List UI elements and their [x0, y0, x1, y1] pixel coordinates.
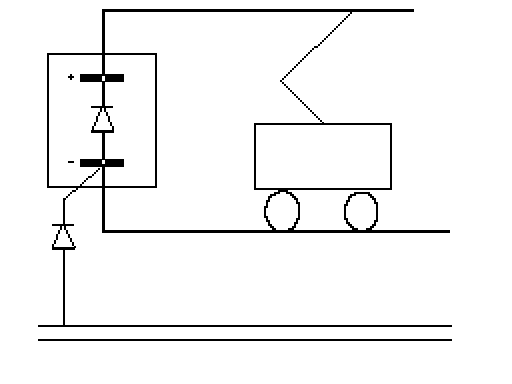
- tap wire (diagonal from negative plate to rail branch): [64, 168, 100, 200]
- diode D2 anode base bar: [52, 247, 75, 250]
- notch in positive plate at wire crossing: [102, 76, 105, 81]
- main feeder wire (vertical, overhead line down through supply): [102, 9, 105, 232]
- wire from diode D2 down to rail: [63, 250, 65, 325]
- minus label: [68, 161, 74, 163]
- diode D2 triangle: [52, 224, 76, 248]
- positive terminal plate: [80, 74, 124, 82]
- overhead contact wire: [102, 9, 414, 12]
- rail 2: [38, 339, 452, 341]
- plus label: [68, 74, 74, 80]
- rail 1: [38, 325, 452, 327]
- return wire (bottom horizontal run): [102, 230, 450, 233]
- right wheel: [344, 192, 378, 232]
- power supply box: [48, 54, 156, 187]
- diode D1 triangle: [92, 106, 115, 130]
- negative terminal plate: [80, 159, 124, 167]
- diode D1 cathode bar: [91, 106, 113, 108]
- diode D1 anode base bar: [91, 130, 114, 133]
- notch in negative plate at wire crossing: [102, 160, 105, 164]
- left wheel: [264, 190, 300, 232]
- train body: [255, 124, 391, 189]
- pantograph lower arm: [280, 80, 324, 124]
- pantograph upper arm: [280, 12, 352, 82]
- diode D2 cathode bar: [52, 224, 74, 226]
- wire to rail diode: [63, 198, 65, 224]
